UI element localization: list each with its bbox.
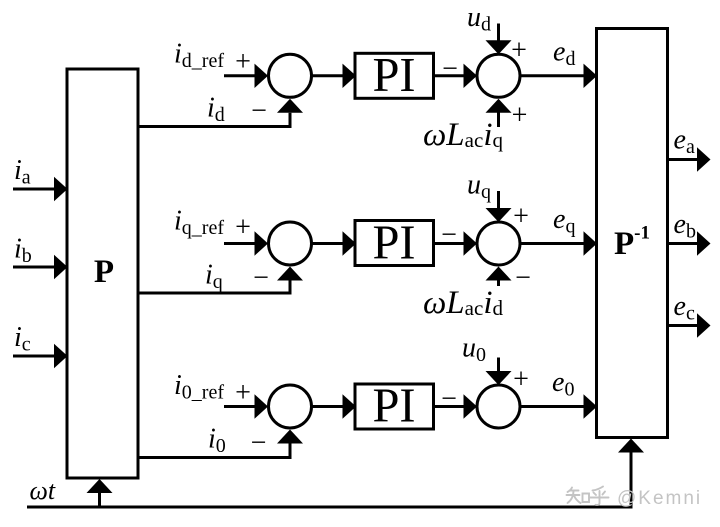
wire i_d_ref to S1d bbox=[224, 74, 255, 77]
wire PI 0 to S20 bbox=[434, 405, 465, 408]
summing junction S20 bbox=[477, 385, 520, 428]
arrowhead i_0 feedback up into S10 bbox=[277, 430, 303, 444]
wire u_d drop bbox=[497, 24, 500, 42]
svg-text:+: + bbox=[512, 100, 528, 131]
wire S2d to P^-1 (e_d) bbox=[520, 74, 585, 77]
arrowhead i_d feedback up into S1d bbox=[277, 99, 303, 113]
arrowhead i_q feedback up into S1q bbox=[277, 267, 303, 281]
arrowhead S10 into PI 0 bbox=[343, 394, 357, 418]
svg-text:@Kemni: @Kemni bbox=[617, 488, 702, 509]
arrowhead e_q into P^-1 bbox=[584, 231, 598, 255]
summing junction S10 bbox=[269, 385, 312, 428]
wire S20 to P^-1 (e_0) bbox=[520, 405, 585, 408]
wire i_0 feedback from P to S10 bbox=[139, 444, 291, 458]
wire omega-L-ac-i_d up into S2q bbox=[497, 280, 500, 286]
summing junction S2d bbox=[477, 54, 520, 97]
arrowhead e_c output bbox=[697, 313, 711, 337]
svg-text:−: − bbox=[515, 262, 531, 293]
svg-text:+: + bbox=[235, 378, 251, 409]
arrowhead e_b output bbox=[697, 231, 711, 255]
wire i_c input bbox=[13, 355, 55, 358]
arrowhead e_a output bbox=[697, 147, 711, 171]
wire S10 to PI 0 bbox=[311, 405, 343, 408]
wire u_0 drop bbox=[497, 358, 500, 373]
arrowhead i_0_ref into S10 bbox=[255, 394, 269, 418]
arrowhead e_d into P^-1 bbox=[584, 64, 598, 88]
wire i_a input bbox=[13, 188, 55, 191]
arrowhead PI 0 into S20 bbox=[464, 394, 478, 418]
wire e_b output bbox=[668, 242, 699, 245]
arrowhead i_c into P bbox=[54, 344, 68, 368]
block P (Park transform) bbox=[67, 69, 138, 478]
svg-text:PI: PI bbox=[372, 49, 415, 102]
summing junction S1q bbox=[269, 222, 312, 265]
block PI q-axis bbox=[355, 221, 434, 266]
wire omega-t bus along bottom bbox=[27, 453, 631, 508]
svg-text:PI: PI bbox=[372, 217, 415, 270]
arrowhead u_0 down into S20 bbox=[486, 371, 512, 385]
wire PI d to S2d bbox=[434, 74, 465, 77]
wire i_0_ref to S10 bbox=[224, 405, 255, 408]
arrowhead omega-t up into P bbox=[87, 479, 113, 493]
svg-text:−: − bbox=[441, 219, 457, 250]
arrowhead u_q down into S2q bbox=[486, 208, 512, 222]
wire i_q_ref to S1q bbox=[224, 242, 255, 245]
svg-text:ωLaciq: ωLaciq bbox=[423, 117, 503, 153]
summing junction S1d bbox=[269, 54, 312, 97]
svg-text:−: − bbox=[442, 53, 458, 84]
arrowhead i_b into P bbox=[54, 255, 68, 279]
block PI d-axis bbox=[355, 53, 434, 98]
svg-text:PI: PI bbox=[372, 380, 415, 433]
arrowhead i_q_ref into S1q bbox=[255, 231, 269, 255]
svg-text:ωLacid: ωLacid bbox=[423, 285, 503, 321]
arrowhead u_d down into S2d bbox=[486, 40, 512, 54]
arrowhead omega-t up into P^-1 bbox=[618, 439, 644, 453]
wire S1d to PI d bbox=[311, 74, 343, 77]
arrowhead i_d_ref into S1d bbox=[255, 64, 269, 88]
wire i_b input bbox=[13, 266, 55, 269]
svg-text:ωt: ωt bbox=[30, 476, 56, 505]
arrowhead PI q into S2q bbox=[464, 231, 478, 255]
arrowhead i_a into P bbox=[54, 177, 68, 201]
wire u_q drop bbox=[497, 191, 500, 208]
arrowhead omega-L-ac-i_d up into S2q bbox=[486, 267, 512, 281]
svg-text:P: P bbox=[94, 254, 114, 290]
svg-text:+: + bbox=[511, 35, 527, 66]
arrowhead PI d into S2d bbox=[464, 64, 478, 88]
block P^-1 (inverse Park) bbox=[597, 29, 668, 438]
arrowhead S1d into PI d bbox=[343, 64, 357, 88]
svg-text:−: − bbox=[251, 95, 267, 126]
svg-text:−: − bbox=[253, 262, 269, 293]
wire S2q to P^-1 (e_q) bbox=[520, 242, 585, 245]
svg-text:+: + bbox=[235, 47, 251, 78]
wire i_d feedback from P to S1d bbox=[139, 113, 291, 127]
wire PI q to S2q bbox=[434, 242, 465, 245]
arrowhead S1q into PI q bbox=[343, 231, 357, 255]
watermark zhihu @Kemni bbox=[567, 487, 609, 505]
wire omega-t branch to P bbox=[98, 493, 101, 507]
arrowhead omega-L-ac-i_q up into S2d bbox=[486, 99, 512, 113]
svg-text:+: + bbox=[513, 364, 529, 395]
svg-text:+: + bbox=[513, 201, 529, 232]
wire e_a output bbox=[668, 158, 699, 161]
block PI 0-axis bbox=[355, 384, 434, 429]
wire S1q to PI q bbox=[311, 242, 343, 245]
wire omega-L-ac-i_q up into S2d bbox=[497, 112, 500, 127]
arrowhead e_0 into P^-1 bbox=[584, 394, 598, 418]
svg-text:+: + bbox=[235, 212, 251, 243]
summing junction S2q bbox=[477, 222, 520, 265]
svg-text:−: − bbox=[441, 383, 457, 414]
wire e_c output bbox=[668, 324, 699, 327]
wire i_q feedback from P to S1q bbox=[139, 281, 291, 294]
svg-text:−: − bbox=[251, 427, 267, 458]
